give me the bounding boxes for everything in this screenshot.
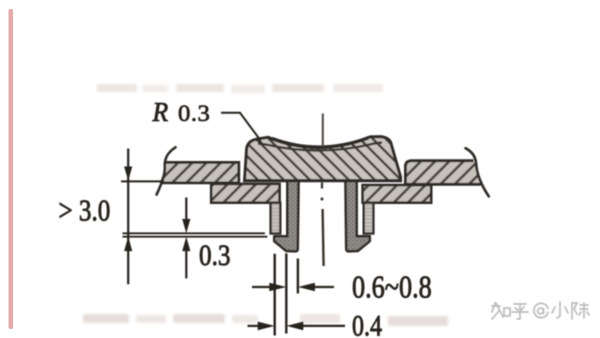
faint watermark band bottom bbox=[83, 314, 448, 326]
break line right plate bbox=[466, 148, 489, 196]
text > 3.0 bbox=[59, 194, 111, 228]
faint watermark band top bbox=[97, 84, 383, 93]
extension line top (plate bottom level) bbox=[121, 180, 164, 182]
text R 0.3 bbox=[152, 97, 169, 127]
dimension 0.4 bbox=[248, 322, 346, 331]
svg-text:R: R bbox=[152, 97, 169, 127]
svg-text:0.4: 0.4 bbox=[352, 309, 382, 338]
left edge red bar (faint) bbox=[9, 9, 14, 329]
down arrow bbox=[124, 167, 132, 181]
collar left bbox=[271, 203, 281, 234]
小 bbox=[552, 302, 568, 318]
bottom extension lines bbox=[274, 254, 276, 336]
inner arc under concave top bbox=[258, 143, 382, 151]
centerline above dome bbox=[322, 114, 324, 148]
break line left plate bbox=[157, 147, 176, 194]
text 0.3 bbox=[199, 238, 230, 272]
svg-text:0.6~0.8: 0.6~0.8 bbox=[352, 270, 432, 305]
right leg with foot bbox=[345, 181, 369, 252]
svg-text:> 3.0: > 3.0 bbox=[59, 194, 111, 228]
centerline between legs (dash dot) bbox=[321, 183, 323, 189]
dimension 0.3 arrows bbox=[182, 198, 190, 279]
text 0.4 bbox=[352, 309, 382, 338]
lower plate left (hatched) bbox=[211, 184, 279, 203]
collar right bbox=[364, 203, 374, 234]
double extension lines (0.3 gap) bbox=[123, 232, 265, 234]
text 0.6~0.8 bbox=[352, 270, 432, 305]
svg-text:0.3: 0.3 bbox=[199, 238, 230, 272]
dimension 0.6~0.8 bbox=[252, 283, 334, 292]
upper plate left (hatched) bbox=[160, 162, 239, 183]
dome bottom edge bbox=[245, 179, 401, 182]
lower plate right (hatched) bbox=[363, 185, 432, 203]
upper plate right (hatched) bbox=[405, 161, 480, 185]
dome (staked head, hatched opposite) bbox=[245, 137, 401, 181]
知 bbox=[492, 303, 510, 319]
dimension >3.0 vertical line bbox=[124, 149, 132, 285]
zhihu watermark 知乎 @小陈 (hand drawn strokes) bbox=[492, 302, 589, 319]
@ bbox=[534, 303, 548, 317]
乎 bbox=[512, 304, 528, 319]
left leg with foot bbox=[274, 181, 298, 252]
up arrow bbox=[124, 237, 132, 251]
svg-text:0.3: 0.3 bbox=[178, 102, 210, 127]
leader line R0.3 bbox=[221, 113, 262, 144]
陈 bbox=[572, 303, 589, 319]
